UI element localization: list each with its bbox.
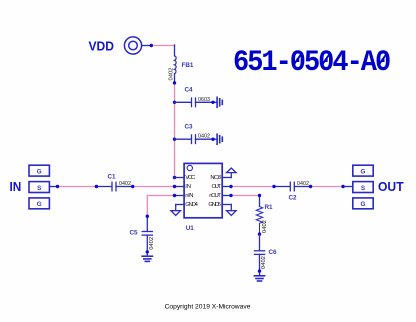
wire C2 to OUT port bbox=[309, 185, 353, 188]
svg-text:U1: U1 bbox=[186, 225, 195, 232]
IC U1 body bbox=[184, 163, 222, 231]
svg-text:Copyright 2019 X-Microwave: Copyright 2019 X-Microwave bbox=[165, 303, 251, 310]
ground (C6) bbox=[254, 276, 264, 281]
svg-text:0402: 0402 bbox=[262, 220, 268, 233]
wire VDD to corner bbox=[142, 44, 175, 56]
capacitor C4 bbox=[175, 98, 217, 107]
svg-text:FB1: FB1 bbox=[182, 62, 194, 69]
wire VCC stub bbox=[175, 177, 185, 179]
svg-text:GND5: GND5 bbox=[208, 202, 221, 208]
svg-text:S: S bbox=[37, 185, 41, 192]
svg-text:IN: IN bbox=[10, 179, 22, 194]
ferrite bead FB1 bbox=[168, 56, 194, 81]
svg-text:OUT: OUT bbox=[212, 184, 222, 190]
wire VDD rail bbox=[173, 74, 176, 180]
svg-text:G: G bbox=[37, 168, 42, 175]
svg-text:0402: 0402 bbox=[149, 237, 155, 250]
capacitor C2 bbox=[290, 182, 310, 191]
ground (GND5) bbox=[222, 205, 236, 216]
ground (C5) bbox=[142, 256, 152, 261]
svg-text:0603: 0603 bbox=[198, 97, 210, 103]
svg-text:nIN: nIN bbox=[185, 193, 193, 199]
svg-text:C4: C4 bbox=[185, 87, 194, 94]
svg-text:G: G bbox=[361, 168, 366, 175]
ground (C3, sideways) bbox=[217, 134, 222, 144]
svg-text:VDD: VDD bbox=[89, 38, 115, 53]
capacitor C5 bbox=[142, 232, 152, 256]
svg-text:R1: R1 bbox=[265, 204, 274, 211]
port IN pads G/S/G bbox=[29, 165, 49, 209]
svg-text:VCC: VCC bbox=[185, 175, 196, 181]
svg-text:C6: C6 bbox=[269, 249, 278, 256]
svg-text:G: G bbox=[37, 201, 42, 208]
capacitor C3 bbox=[175, 135, 217, 144]
title 651-0504-A0 bbox=[233, 45, 390, 80]
svg-text:NC8: NC8 bbox=[210, 175, 221, 181]
svg-text:S: S bbox=[361, 185, 365, 192]
svg-text:0402: 0402 bbox=[168, 68, 174, 81]
resistor R1 bbox=[256, 204, 273, 236]
ground (GND4) bbox=[171, 205, 184, 216]
svg-text:C5: C5 bbox=[130, 230, 139, 237]
wire IN net bbox=[49, 185, 111, 188]
svg-text:GND4: GND4 bbox=[185, 202, 198, 208]
svg-text:C3: C3 bbox=[185, 124, 194, 131]
wire nOUT net bbox=[222, 194, 261, 207]
wire nIN net bbox=[146, 194, 185, 231]
svg-text:G: G bbox=[361, 201, 366, 208]
svg-text:0402: 0402 bbox=[198, 134, 210, 140]
capacitor C6 bbox=[254, 234, 264, 275]
svg-text:0402: 0402 bbox=[297, 181, 309, 187]
svg-text:651-0504-A0: 651-0504-A0 bbox=[233, 45, 390, 80]
svg-text:nOUT: nOUT bbox=[209, 193, 221, 199]
port VDD circle bbox=[124, 37, 141, 54]
svg-text:0402: 0402 bbox=[261, 256, 267, 269]
svg-text:C1: C1 bbox=[108, 174, 117, 181]
port OUT pads G/S/G bbox=[353, 165, 373, 209]
capacitor C1 bbox=[112, 182, 133, 191]
wire C1 to U1 bbox=[131, 185, 184, 188]
svg-text:0402: 0402 bbox=[119, 181, 131, 187]
no-connect NC8 arrow bbox=[222, 168, 236, 178]
IC U1 pin names bbox=[185, 175, 221, 208]
wire OUT net bbox=[222, 185, 290, 188]
svg-text:C2: C2 bbox=[289, 195, 298, 202]
svg-text:OUT: OUT bbox=[378, 179, 404, 194]
svg-text:IN: IN bbox=[185, 184, 191, 190]
ground (C4, sideways) bbox=[217, 97, 222, 107]
